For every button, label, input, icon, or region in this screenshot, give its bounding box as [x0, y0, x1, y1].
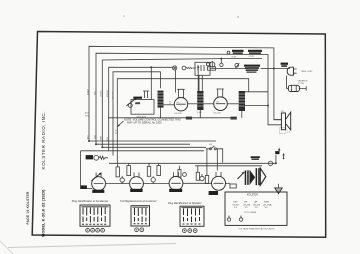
tube V1 — [174, 98, 187, 111]
grid cap circle — [128, 103, 132, 107]
wire plug to speaker plug — [287, 76, 289, 89]
wire V1 to L2 — [188, 103, 198, 105]
svg-text:Plug identification at Speaker: Plug identification at Speaker — [168, 201, 202, 205]
table 1 header marks — [82, 206, 109, 208]
svg-text:PWR: PWR — [264, 201, 269, 203]
wire coil2 primary drop — [197, 67, 199, 91]
bus tag box 1 — [186, 117, 192, 120]
tube V2 — [214, 97, 228, 111]
audio B+ bus — [109, 162, 276, 164]
REG. UNIT label — [281, 63, 288, 65]
KOLSTER tube table box — [225, 192, 287, 225]
node dot bus1 plug junction — [273, 68, 275, 70]
tube V3 first AF — [92, 177, 106, 191]
wave trap stem — [211, 61, 213, 67]
svg-text:Plug identification at Condens: Plug identification at Condenser — [72, 199, 109, 203]
tube V5 detector — [169, 176, 183, 190]
+A arrow — [283, 154, 285, 159]
coupling R4 — [147, 166, 150, 176]
node dot — [95, 143, 97, 145]
terminal eyelets 1 — [86, 228, 90, 232]
line switch S3 — [235, 63, 239, 67]
power label 3line — [244, 65, 260, 67]
svg-text:N: N — [287, 129, 290, 134]
resistor zigzag — [99, 156, 108, 159]
svg-text:GND.: GND. — [85, 115, 90, 117]
table symbol 2 — [239, 218, 242, 221]
coupling R6 — [196, 172, 199, 180]
svg-text:UX-226: UX-226 — [214, 112, 222, 114]
wave trap box — [195, 62, 210, 75]
svg-text:GND: GND — [94, 134, 96, 139]
paper edge shadow corner — [0, 241, 13, 254]
volume pot R1 label — [86, 155, 93, 159]
output pot arrow — [238, 172, 245, 179]
output transformer bar C — [256, 168, 258, 185]
lightning arrester circle — [182, 66, 186, 70]
trimmer label — [135, 102, 140, 104]
svg-text:VOLTAGE READINGS AT SOCKETS: VOLTAGE READINGS AT SOCKETS — [239, 227, 276, 230]
label under V3 — [92, 190, 104, 193]
grid drop V6 left — [206, 149, 208, 176]
potentiometer arrow — [127, 98, 137, 106]
svg-text:UX-226: UX-226 — [175, 113, 183, 115]
svg-text:PLUG: PLUG — [299, 83, 305, 85]
table symbol 1 — [227, 218, 230, 221]
volume control box — [131, 100, 154, 115]
svg-text:UX-226: UX-226 — [253, 204, 261, 206]
label under V6 — [209, 191, 218, 195]
speaker plug body — [288, 85, 299, 91]
mid bus H3 — [102, 146, 206, 148]
grid cap C — [120, 178, 124, 182]
label under V4 — [130, 189, 142, 192]
svg-text:UX-171A: UX-171A — [263, 203, 272, 206]
audio ground bus — [81, 150, 204, 152]
output transformer bar B — [247, 170, 249, 185]
svg-text:DET: DET — [234, 201, 239, 203]
coupling R3 — [127, 166, 131, 176]
wire V3 to V4 — [106, 183, 130, 185]
terminal table 2 — [131, 206, 150, 226]
bus line 3 — [102, 59, 262, 148]
tube V6 power AF — [212, 176, 226, 190]
coupling R7 — [205, 176, 208, 184]
ground bus line 2 — [96, 53, 281, 144]
paper edge shadow bottom — [8, 244, 176, 248]
wire L2 to V2 — [204, 103, 214, 105]
wire grid drop V1 — [150, 67, 152, 99]
grid drop V6 — [216, 149, 218, 171]
bus line 5 — [113, 72, 160, 156]
ground symbol — [278, 184, 280, 188]
terminal table 1 — [80, 205, 110, 226]
coil cathode stubs — [161, 108, 242, 118]
wire V2 to L3 — [227, 103, 238, 105]
wire bus3 drop — [220, 59, 222, 64]
svg-text:ANT.: ANT. — [85, 112, 90, 115]
svg-text:CORD: CORD — [249, 56, 255, 58]
mid bus H1 — [89, 140, 216, 142]
bias box — [230, 184, 236, 188]
cone speaker driver — [281, 113, 285, 130]
svg-text:UY-227: UY-227 — [233, 204, 241, 206]
rectifier triangle 1 — [250, 170, 256, 185]
svg-text:UX-226: UX-226 — [243, 204, 251, 206]
svg-text:Coil Replacements at Customer: Coil Replacements at Customer — [120, 199, 157, 203]
node dot — [88, 140, 90, 142]
svg-text:MODEL K-20,K-22 (1929): MODEL K-20,K-22 (1929) — [41, 189, 46, 237]
rectifier triangle 2 — [260, 168, 266, 185]
label left of V3 — [80, 185, 87, 189]
wave trap circle — [210, 62, 215, 67]
note arrow — [118, 121, 124, 127]
label under V5 — [169, 189, 182, 192]
switch S2 — [206, 149, 223, 163]
light socket antenna label — [232, 50, 244, 52]
svg-text:FUSE: FUSE — [232, 57, 238, 59]
volume pot R1 — [94, 155, 99, 160]
node dot — [197, 66, 199, 68]
wave trap circle — [206, 63, 209, 66]
grid drop V1 from lamp — [175, 70, 177, 92]
pilot lamp P1 — [173, 66, 177, 70]
vol control label — [133, 97, 142, 99]
cone speaker wire top — [274, 119, 282, 121]
bus tag box 2 — [231, 117, 237, 120]
antenna bus line 1 — [89, 46, 281, 141]
bus line 6 — [117, 79, 248, 164]
RF coil L2 — [197, 91, 203, 110]
terminal table 3 — [180, 206, 204, 226]
node dot — [275, 162, 277, 164]
pot arrow through V3 — [92, 173, 102, 181]
wire L3 secondary top — [245, 91, 268, 93]
svg-text:REG. UNIT: REG. UNIT — [302, 71, 314, 73]
grid cap above V5 — [183, 173, 187, 177]
svg-text:KOLSTER RADIO, INC.: KOLSTER RADIO, INC. — [41, 111, 46, 170]
terminal eyelets 2 — [135, 228, 139, 232]
wire V5 to V6 — [183, 182, 212, 184]
antenna switch S1 circle — [227, 51, 230, 54]
coupling stubs set3 — [180, 166, 203, 177]
svg-text:2 MF: 2 MF — [197, 112, 202, 114]
grid leak above V5 — [178, 170, 181, 178]
speaker unit label — [251, 156, 260, 158]
+B label — [275, 151, 279, 154]
wire +B drop — [275, 155, 277, 163]
left drop wire — [81, 151, 93, 189]
svg-text:MAR: MAR — [100, 135, 103, 140]
bus line 4 — [109, 67, 173, 151]
coupling R2 — [116, 167, 119, 177]
coupling stubs set2 — [149, 163, 159, 183]
node dot — [101, 146, 103, 148]
output transformer bar D — [258, 168, 260, 185]
grid cap C3 — [200, 176, 204, 180]
svg-text:WAY UP TO SERIAL No 1000: WAY UP TO SERIAL No 1000 — [127, 120, 162, 124]
terminal eyelets 3 — [183, 229, 187, 233]
power plug J1 — [287, 67, 290, 75]
mid bus H2 — [96, 143, 190, 145]
svg-text:BLUE: BLUE — [116, 129, 118, 134]
wave trap box — [208, 67, 216, 70]
RF coil L3 — [239, 91, 245, 111]
svg-text:BROWN: BROWN — [107, 89, 109, 97]
output transformer bar A — [245, 170, 247, 185]
speaker plug lead — [300, 86, 307, 91]
trap coupling circle — [220, 63, 223, 66]
tuning condenser plates — [143, 91, 149, 98]
svg-text:PAGE 16 KOLSTER: PAGE 16 KOLSTER — [26, 191, 30, 225]
faint switch mark — [280, 128, 287, 134]
page border frame — [32, 32, 326, 238]
+B arrow — [278, 149, 280, 154]
speck — [123, 15, 125, 17]
node dot — [150, 66, 152, 68]
tube V4 second AF — [130, 177, 144, 191]
grid cap C2 — [151, 178, 155, 182]
coupling R5 — [157, 166, 161, 176]
cathode bus line — [108, 117, 237, 119]
aerial optional label — [248, 50, 262, 52]
cone speaker horn — [286, 112, 291, 130]
svg-text:GREEN: GREEN — [101, 90, 103, 97]
speck — [237, 16, 239, 18]
wire L3 secondary bottom — [244, 105, 269, 107]
wire L1 to V1 — [164, 104, 175, 106]
audio bus second — [195, 165, 262, 167]
svg-text:BLACK: BLACK — [86, 88, 89, 95]
node dot — [220, 58, 222, 60]
phone jack circle — [268, 161, 272, 165]
svg-text:SW: SW — [209, 144, 212, 146]
wire V6 to output — [226, 182, 231, 184]
svg-text:KOLSTER: KOLSTER — [247, 194, 258, 196]
wire bus1 to plug — [274, 68, 290, 70]
coupling stubs set1 — [118, 163, 129, 183]
node dot junction speaker feed — [267, 105, 269, 107]
wire to plug — [210, 68, 246, 70]
RF coil L1 — [158, 91, 164, 108]
svg-text:1 TO 6 OHMS: 1 TO 6 OHMS — [244, 212, 257, 214]
lightning arrester gap — [186, 67, 196, 69]
wire V4 to V5 — [143, 183, 169, 185]
svg-text:YELLOW: YELLOW — [112, 91, 114, 99]
